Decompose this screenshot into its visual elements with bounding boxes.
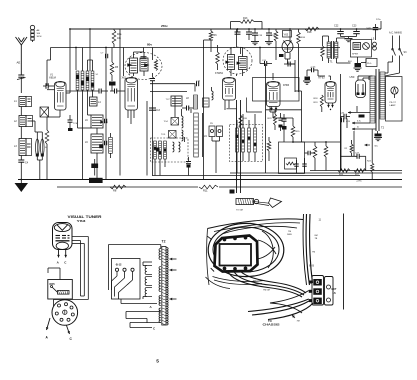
svg-text:TC7: TC7 <box>166 99 171 101</box>
transformer bolt 2 <box>234 237 237 240</box>
trimmer TO4 box lower <box>169 131 177 139</box>
T2 detail core <box>162 247 166 326</box>
svg-text:C13: C13 <box>156 109 161 112</box>
speaker rim inner <box>213 227 279 272</box>
IFT1 primary coil <box>130 58 138 73</box>
svg-text:R18: R18 <box>314 98 319 100</box>
tap arrow 60v mid <box>365 144 371 146</box>
svg-text:S1: S1 <box>96 74 99 76</box>
tube V5 KT63 <box>267 82 281 107</box>
cable pair right <box>306 214 309 285</box>
svg-text:DRB: DRB <box>287 234 292 236</box>
oscillator coil L8 bar <box>194 95 198 109</box>
chassis top edge inner <box>214 223 300 232</box>
svg-text:LAMP: LAMP <box>390 104 396 107</box>
svg-text:11: 11 <box>319 219 322 222</box>
T2 top bracket wire <box>109 244 161 246</box>
wire af horizontal 110 <box>266 109 302 111</box>
S1b bump coil A <box>173 142 175 152</box>
socket pin 7 <box>55 312 58 315</box>
electrolytic blob C6b <box>91 164 98 169</box>
svg-text:TO5: TO5 <box>161 134 166 136</box>
svg-text:EXT: EXT <box>332 288 337 291</box>
mains to transformer <box>392 56 394 63</box>
T2 detail right winding <box>166 248 168 250</box>
capacitor C8 <box>98 89 100 94</box>
resistor R5 <box>110 62 114 75</box>
terminal block 3 <box>313 298 322 305</box>
svg-text:TO4: TO4 <box>164 121 169 123</box>
svg-text:R2: R2 <box>345 148 349 150</box>
wire x298 long <box>298 64 300 92</box>
S1c bar2 <box>242 128 245 152</box>
box around V5 <box>253 78 300 102</box>
earth speaker <box>354 67 362 69</box>
blob S1b contact <box>156 148 159 152</box>
capacitor IF1 lower trimmer <box>104 141 106 146</box>
capacitor C26 <box>343 114 345 120</box>
speaker voice coil circle <box>363 43 370 50</box>
R25 box <box>48 280 73 300</box>
T2 detail left winding top <box>159 249 161 260</box>
switch bank S1c dashed box <box>230 125 263 162</box>
capacitor C16 <box>264 61 266 66</box>
socket wiring <box>54 299 89 301</box>
IFT1 tuning arrow right <box>144 63 149 67</box>
T2 terminal 1 <box>115 268 118 271</box>
speaker field coil <box>353 43 361 50</box>
capacitor C11 <box>186 106 188 111</box>
S1b bar2 <box>159 141 162 159</box>
trimmer bar B <box>41 139 45 156</box>
pickup socket box 1 <box>209 126 215 137</box>
svg-text:80v: 80v <box>147 43 152 47</box>
transformer T2 secondary stack <box>380 72 385 119</box>
valve socket circle <box>52 300 78 326</box>
svg-text:270v: 270v <box>376 19 382 21</box>
S1b bar1 <box>154 141 157 159</box>
resistor R22 <box>324 146 328 157</box>
speaker rim outer <box>208 223 284 276</box>
ground chassis symbol <box>20 180 22 184</box>
wires S1a tops <box>82 48 84 72</box>
capacitor C10 top <box>141 56 147 58</box>
svg-text:R13: R13 <box>243 17 248 20</box>
pointer flag <box>269 198 282 208</box>
capacitor C23 <box>356 29 358 32</box>
capacitor C21a <box>294 163 299 165</box>
wire osc extra verticals <box>174 96 176 117</box>
wire gang rail B <box>240 100 242 193</box>
aerial plug detail <box>30 25 34 29</box>
magic eye tube <box>282 41 293 53</box>
capacitor C15b <box>196 81 198 86</box>
svg-text:TO: TO <box>268 319 272 323</box>
osc bump coil B <box>182 130 184 141</box>
svg-text:A: A <box>46 336 49 340</box>
T2 A wire <box>121 303 157 305</box>
switch bank S1a bar1 <box>76 71 79 90</box>
IFT2 secondary coil <box>239 57 248 70</box>
wire HT+ 250v bus <box>70 28 381 30</box>
wire x152 down <box>152 88 154 176</box>
S1c bar4 <box>254 128 257 152</box>
wire AVC bus <box>57 186 198 188</box>
wire rail x90 long <box>89 29 91 71</box>
node aerial-chassis junction <box>20 179 22 181</box>
resistor R volume <box>267 141 271 151</box>
svg-text:L9: L9 <box>204 135 207 138</box>
socket pin 2 <box>65 303 68 306</box>
tuning drum <box>236 199 254 205</box>
svg-text:7B: 7B <box>315 238 318 240</box>
wire x295-64 drop <box>294 70 296 92</box>
resistor R16 <box>297 32 301 44</box>
wire chassis bus upper <box>152 175 360 177</box>
label 7M bottom <box>292 315 295 318</box>
coil L3 <box>19 139 26 156</box>
IF can 2 dashed ellipse <box>223 47 252 74</box>
S1b bar3 <box>164 141 167 159</box>
svg-text:60v: 60v <box>375 146 379 148</box>
wire C4 to chassis <box>20 162 22 179</box>
wire L2-L3 <box>20 127 22 139</box>
speaker spoke upper <box>258 240 276 254</box>
wire osc rail x191 <box>190 109 192 113</box>
svg-text:300: 300 <box>37 33 41 35</box>
padder bar right <box>109 137 113 153</box>
wire rail x120 pair <box>119 29 121 176</box>
svg-text:R19: R19 <box>314 102 319 104</box>
speaker spoke lower <box>257 247 275 259</box>
coil L7 box <box>171 96 182 106</box>
svg-text:L1: L1 <box>14 100 17 103</box>
capacitor TC10 <box>186 161 191 163</box>
wires IF can 2 <box>230 47 232 55</box>
wire bus right upper <box>310 170 402 172</box>
svg-text:X62: X62 <box>122 77 127 80</box>
T2 small coil 2 <box>145 277 147 286</box>
wire bus right mid <box>230 172 402 174</box>
AF box small <box>247 98 263 113</box>
svg-text:A: A <box>57 260 60 264</box>
svg-text:C: C <box>153 327 156 331</box>
magic eye leads <box>284 53 286 60</box>
svg-text:T2: T2 <box>162 240 166 244</box>
T2 heater taps <box>348 112 352 114</box>
wire rail x106 <box>105 48 107 180</box>
wire x211 down <box>210 40 212 52</box>
visual tuner base circle <box>56 242 68 249</box>
svg-text:Y63: Y63 <box>77 219 87 223</box>
resistor R23 <box>274 114 277 125</box>
svg-text:TO4: TO4 <box>104 122 109 124</box>
capacitor C9 <box>114 89 116 94</box>
switch S3 <box>393 49 396 56</box>
terminal block 1 <box>313 279 322 286</box>
socket pin 5 <box>67 318 70 321</box>
coil L2 <box>19 116 26 127</box>
svg-text:SPKR: SPKR <box>352 54 358 56</box>
transformer bolt 1 <box>223 238 226 241</box>
dial lamp bulb <box>391 87 398 94</box>
terminal lugs <box>309 281 312 284</box>
blob C6 electrolytic <box>111 75 113 81</box>
resistor R21 bias <box>320 95 323 107</box>
S1a extra contacts <box>76 75 79 78</box>
resistor R15 <box>291 126 295 137</box>
svg-text:U50: U50 <box>350 75 355 79</box>
svg-text:C: C <box>64 260 67 264</box>
svg-text:R5: R5 <box>115 66 119 69</box>
svg-text:L6: L6 <box>85 119 88 122</box>
visual tuner lead C <box>65 250 67 258</box>
svg-text:10k: 10k <box>117 37 122 40</box>
svg-text:A.C. MAINS: A.C. MAINS <box>389 32 402 35</box>
transformer T2 core <box>375 69 377 131</box>
chassis bottom left arc <box>206 277 231 289</box>
svg-text:6.3v: 6.3v <box>357 121 361 123</box>
osc bump coil A <box>182 116 184 128</box>
visual tuner tube envelope <box>53 223 73 250</box>
transformer bolt 4 <box>223 267 226 270</box>
svg-text:Y63: Y63 <box>284 33 289 37</box>
T2 6v tap <box>352 122 356 124</box>
svg-text:DH63: DH63 <box>283 84 290 87</box>
wire rail x301 <box>301 91 303 142</box>
terminal block 2 <box>313 288 322 295</box>
svg-text:TO 6M: TO 6M <box>236 210 243 212</box>
T2 detail right taps <box>170 258 177 260</box>
socket lead A arrow <box>47 318 51 330</box>
T2 terminal leads <box>116 271 118 276</box>
trimmer TO4 box upper <box>171 118 179 126</box>
svg-text:S3: S3 <box>404 51 408 54</box>
svg-text:30 M: 30 M <box>37 36 42 38</box>
capacitor C22 <box>340 29 342 32</box>
wire T2 bottom drop <box>371 129 373 163</box>
chassis left edge <box>207 229 209 286</box>
coil L4 box <box>90 97 98 106</box>
socket pin 6 <box>60 318 63 321</box>
svg-text:R11: R11 <box>203 189 208 193</box>
S1c bar1 <box>236 128 239 152</box>
bottom wire bundle <box>248 299 309 312</box>
wire aerial lead lower <box>20 77 22 93</box>
switch bank S1b dashed box <box>151 138 189 162</box>
capacitor IF1 upper trimmer <box>104 119 106 124</box>
resistor R25b <box>350 144 353 153</box>
T2 small coil 3 <box>145 288 147 297</box>
svg-text:+C25: +C25 <box>310 67 316 69</box>
transformer T1 core <box>331 41 333 59</box>
capacitor C26b <box>341 118 343 123</box>
pickup socket box 2 <box>217 126 223 137</box>
tube V6 KT63 output <box>325 82 336 103</box>
svg-text:C: C <box>70 337 73 341</box>
svg-text:60 B: 60 B <box>309 265 314 268</box>
visual tuner anode bar <box>56 240 70 242</box>
wire trimmer link <box>37 131 42 133</box>
resistor R13 bypass <box>230 22 232 30</box>
speaker terminal box <box>351 40 372 58</box>
svg-text:PLG: PLG <box>367 63 372 65</box>
wire 80v screen bus <box>51 47 341 49</box>
T2 terminal box <box>112 259 141 300</box>
svg-text:7M: 7M <box>312 252 315 254</box>
IF1 coil upper <box>91 115 103 128</box>
IF can 1 dashed ellipse <box>125 53 162 80</box>
tube V4 base <box>227 108 237 110</box>
AF network box <box>279 142 305 174</box>
panel edge tick lower <box>211 268 214 271</box>
S1c bottom leads <box>236 152 238 173</box>
capacitor C1 on aerial lead <box>18 74 24 76</box>
visual tuner lead A <box>58 250 60 258</box>
tube V6 bottom leads <box>328 103 330 108</box>
output transformer box outer <box>215 236 258 272</box>
wire pu bottoms <box>212 140 220 142</box>
resistor grid stopper <box>216 52 220 64</box>
earth C22 C23 <box>341 36 357 38</box>
svg-text:LS: LS <box>333 292 337 295</box>
wire x290 rail <box>289 29 291 42</box>
IF1 black contact <box>99 144 103 148</box>
S1c bar3 <box>248 128 251 152</box>
svg-text:R6: R6 <box>214 34 218 37</box>
capacitor C25 electrolytic <box>311 68 313 73</box>
chassis aperture arc <box>222 226 297 234</box>
wire af hor <box>293 141 340 143</box>
wire grid feed from 80v corner <box>50 48 52 61</box>
capacitor C21c <box>307 151 309 156</box>
speaker cone arc <box>262 231 273 268</box>
R25 resistor element <box>58 291 70 295</box>
IFT2 primary coil <box>228 55 235 70</box>
transformer T1 primary <box>327 42 330 58</box>
transformer bolt 3 <box>244 236 247 239</box>
svg-text:4v: 4v <box>357 127 359 129</box>
T2 detail left winding bottom <box>159 308 161 323</box>
visual tuner dashed grid <box>56 235 61 237</box>
wire V2 bottom leads <box>127 110 129 118</box>
wire V5 cathode leads <box>269 107 271 113</box>
socket lead C arrow <box>67 326 70 335</box>
svg-text:R18: R18 <box>307 31 312 34</box>
svg-text:C4: C4 <box>25 162 29 165</box>
socket pin 4 <box>71 313 74 316</box>
wires S1a bottoms <box>77 90 79 128</box>
capacitor C2 grid <box>45 83 47 89</box>
resistor R19 <box>321 46 325 57</box>
ext terminal 1 <box>327 285 331 289</box>
capacitor C24 <box>373 27 379 29</box>
svg-text:R16: R16 <box>301 37 306 39</box>
chassis lower rim <box>213 277 265 282</box>
IFT1 tuning arrow left <box>127 63 132 67</box>
svg-text:5: 5 <box>156 358 159 364</box>
wire bundle from transformer <box>228 272 302 298</box>
svg-text:R8: R8 <box>113 189 117 193</box>
capacitor C12 below can <box>150 78 155 80</box>
svg-text:7M: 7M <box>288 231 291 233</box>
capacitor C4 <box>18 159 24 161</box>
svg-text:R4a: R4a <box>117 33 122 36</box>
resistor R10 on rail <box>239 115 242 128</box>
capacitor C18 with earth <box>254 29 256 33</box>
tube V4 KT2 <box>223 78 236 100</box>
wire rail x76 <box>75 48 77 71</box>
wire bus drop x381 <box>380 21 382 29</box>
wire avc drop x265 <box>265 64 267 174</box>
svg-text:AE: AE <box>37 29 40 32</box>
resistor R26 <box>338 169 350 173</box>
blob BLK <box>355 63 362 67</box>
svg-text:T1: T1 <box>330 60 334 64</box>
svg-text:C23: C23 <box>352 25 357 28</box>
svg-text:L4: L4 <box>98 101 101 104</box>
mains lead N <box>399 36 401 49</box>
resistor R11 on AVC bus <box>199 185 218 189</box>
label Y63 box <box>283 31 292 38</box>
svg-text:L6: L6 <box>85 141 88 144</box>
T2 detail left winding mid <box>159 267 161 292</box>
svg-text:C7: C7 <box>101 53 105 55</box>
svg-text:C16: C16 <box>262 60 267 62</box>
wire speaker links <box>342 62 351 64</box>
socket centre spigot <box>63 310 67 314</box>
IF1 arrow upper <box>100 120 103 123</box>
capacitor TC6 <box>68 119 73 121</box>
svg-text:KTW62: KTW62 <box>215 72 224 75</box>
coil L1 <box>19 97 26 107</box>
wires IF can 1 <box>133 52 135 58</box>
svg-text:T2: T2 <box>381 126 385 130</box>
S1c top leads <box>236 120 238 128</box>
T2 coil links <box>143 265 147 267</box>
wire det horizontals <box>150 83 195 85</box>
wire V5 top cap <box>272 77 274 80</box>
ext ls plate <box>325 277 334 306</box>
wire x340 rail <box>339 74 341 171</box>
plug box <box>366 59 377 67</box>
transformer T2 primary stack <box>370 76 375 123</box>
resistor R24 <box>371 163 374 172</box>
svg-text:250v: 250v <box>161 24 168 28</box>
wire V1 cathode down <box>59 110 61 117</box>
T2 earth bottom <box>377 131 379 134</box>
capacitor C27 <box>356 154 358 159</box>
svg-text:L8: L8 <box>186 97 189 100</box>
wire V4 cathode <box>228 100 230 108</box>
transformer T1 secondary <box>335 42 338 58</box>
wire x203 long rail <box>203 40 205 180</box>
svg-text:C18: C18 <box>258 35 263 37</box>
resistor R20 <box>313 146 317 158</box>
mains lead L <box>392 36 394 49</box>
chassis top edge <box>208 219 304 229</box>
wire T1 top leads <box>328 36 330 42</box>
resistor R2 cathode <box>45 130 49 144</box>
socket pin 3 <box>70 306 73 309</box>
svg-text:C22: C22 <box>334 25 339 28</box>
IF1 coil lower <box>91 134 103 153</box>
resistor R17 boxed <box>285 158 297 169</box>
wire V1 anode rail <box>69 29 71 93</box>
svg-text:-B-12: -B-12 <box>115 263 122 267</box>
visual tuner target ellipse <box>54 224 70 232</box>
chassis right edge <box>343 214 345 310</box>
